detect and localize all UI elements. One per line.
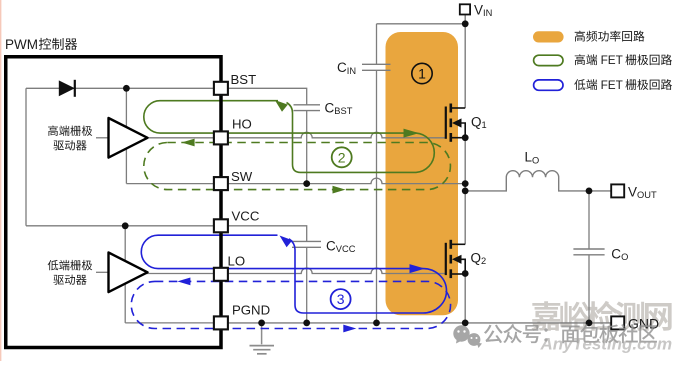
svg-text:PWM: PWM bbox=[5, 37, 38, 52]
svg-text:V: V bbox=[474, 2, 483, 17]
svg-text:BST: BST bbox=[334, 106, 352, 116]
svg-text:VCC: VCC bbox=[232, 209, 260, 224]
svg-text:Q: Q bbox=[471, 114, 482, 129]
svg-text:C: C bbox=[337, 60, 347, 75]
svg-text:1: 1 bbox=[418, 66, 426, 82]
svg-text:AnyTesting.com: AnyTesting.com bbox=[540, 335, 673, 354]
svg-text:C: C bbox=[611, 246, 621, 261]
svg-text:V: V bbox=[628, 184, 637, 199]
svg-text:IN: IN bbox=[483, 8, 492, 18]
svg-text:FET: FET bbox=[601, 78, 623, 92]
svg-text:3: 3 bbox=[337, 291, 345, 307]
svg-text:SW: SW bbox=[231, 169, 253, 184]
svg-text:C: C bbox=[325, 100, 335, 115]
svg-text:2: 2 bbox=[481, 256, 486, 266]
svg-text:1: 1 bbox=[482, 120, 487, 130]
svg-text:HO: HO bbox=[232, 116, 252, 131]
svg-text:O: O bbox=[532, 156, 539, 166]
svg-text:PGND: PGND bbox=[232, 303, 270, 318]
svg-text:IN: IN bbox=[347, 66, 356, 76]
svg-text:BST: BST bbox=[231, 72, 257, 87]
svg-text:OUT: OUT bbox=[637, 190, 657, 200]
svg-text:VCC: VCC bbox=[336, 244, 356, 254]
svg-text:FET: FET bbox=[601, 53, 623, 67]
svg-text:C: C bbox=[326, 238, 336, 253]
svg-text:O: O bbox=[621, 252, 628, 262]
svg-text:LO: LO bbox=[228, 253, 246, 268]
svg-text:2: 2 bbox=[338, 149, 346, 165]
svg-text:Q: Q bbox=[471, 250, 482, 265]
